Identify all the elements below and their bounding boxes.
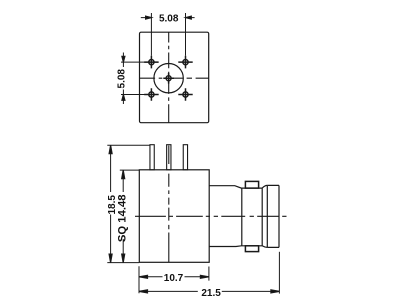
svg-text:21.5: 21.5	[201, 288, 221, 299]
svg-text:5.08: 5.08	[117, 69, 128, 89]
svg-text:5.08: 5.08	[159, 14, 179, 25]
svg-text:10.7: 10.7	[164, 273, 184, 284]
svg-text:SQ 14.48: SQ 14.48	[117, 194, 129, 242]
